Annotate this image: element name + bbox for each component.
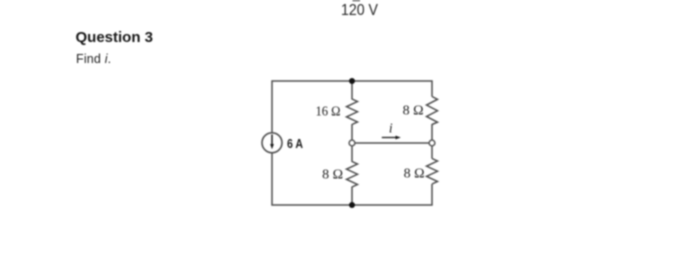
svg-text:120 V: 120 V — [341, 2, 378, 19]
svg-text:8 Ω: 8 Ω — [322, 167, 343, 182]
svg-text:16 Ω: 16 Ω — [316, 105, 341, 120]
svg-text:i: i — [389, 120, 393, 135]
svg-text:6 A: 6 A — [287, 136, 303, 151]
svg-text:8 Ω: 8 Ω — [403, 104, 424, 119]
svg-text:8 Ω: 8 Ω — [404, 167, 425, 182]
